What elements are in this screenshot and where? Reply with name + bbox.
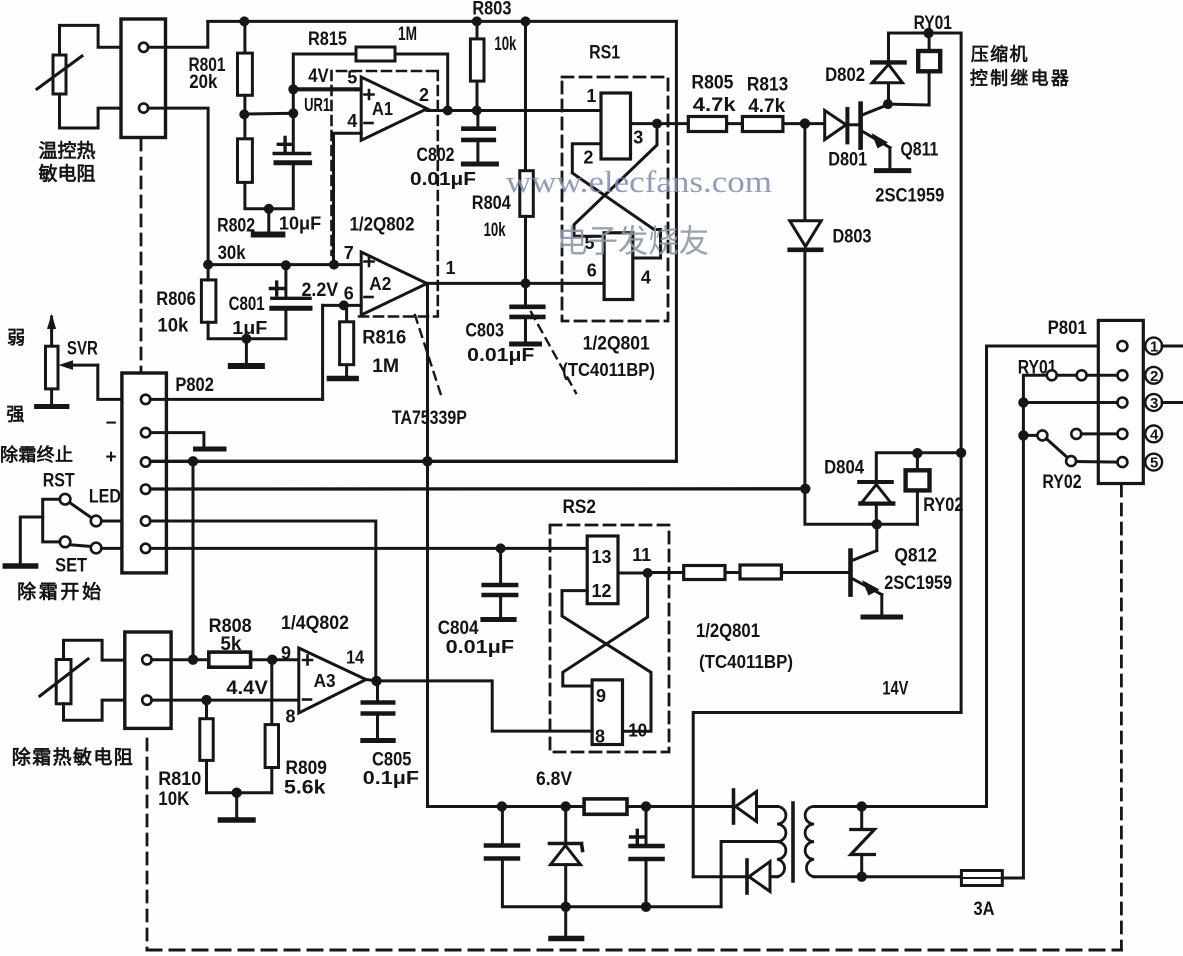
resistor R813 (742, 117, 783, 132)
resistor R810 (200, 700, 213, 793)
svg-text:6: 6 (587, 261, 597, 281)
wire pin6 to P802 pin1 (321, 305, 324, 399)
node dot top rail / R801 (239, 16, 249, 26)
svg-text:P802: P802 (175, 375, 214, 396)
wire RT2 bottom to connector (64, 700, 125, 720)
svg-text:2.2V: 2.2V (302, 280, 339, 301)
svg-text:14V: 14V (882, 679, 908, 700)
wire U1a output to U1b pin5 cross-coupling (574, 124, 657, 237)
ground (supply) (551, 907, 582, 939)
pin circle J1-1 (139, 43, 148, 52)
node dot Q811 collector (883, 99, 893, 109)
node dot zener top (561, 801, 571, 811)
node dot R803/C802 on output row (472, 106, 482, 116)
pin circle P801-5 (1117, 457, 1127, 467)
svg-text:6.8V: 6.8V (536, 769, 572, 790)
svg-text:RS1: RS1 (589, 43, 620, 64)
svg-text:4.7k: 4.7k (693, 95, 736, 116)
wire J1-1 to top rail (148, 22, 208, 47)
svg-text:4V: 4V (308, 66, 329, 87)
wire mains live vertical (pin1 to primary) (987, 346, 1123, 807)
svg-text:20k: 20k (189, 72, 217, 93)
node dot RY01 top (923, 28, 933, 38)
wire RS1 output to R805 (657, 122, 688, 125)
svg-text:RY02: RY02 (1042, 472, 1081, 493)
node dot LED row / D803 line (800, 484, 810, 494)
svg-text:P801: P801 (1048, 318, 1088, 339)
svg-text:8: 8 (595, 727, 605, 747)
pin circle P801-2 (1117, 370, 1127, 380)
wire comparator input row (208, 263, 361, 266)
node dot varistor top (857, 801, 867, 811)
svg-text:9: 9 (596, 686, 606, 706)
svg-text:30k: 30k (218, 243, 246, 264)
circled terminal 5 (1145, 454, 1162, 472)
svg-text:10K: 10K (158, 789, 189, 810)
wire primary top to varistor (814, 805, 987, 808)
node dot R804 top rail (521, 16, 531, 26)
wire U1a output (631, 122, 658, 125)
node dot zener bottom (561, 902, 571, 912)
label R810 10K (158, 769, 201, 810)
svg-text:敏电阻: 敏电阻 (38, 162, 96, 185)
wire U2a output (618, 572, 648, 575)
svg-text:3: 3 (633, 128, 643, 148)
svg-text:R806: R806 (156, 289, 196, 310)
pin circle P802-3 (141, 457, 150, 466)
wire R810/R809 bottoms (207, 791, 272, 794)
svg-text:4.4V: 4.4V (226, 678, 268, 699)
node dot filter cap top (497, 801, 507, 811)
node dot R810 top (201, 695, 211, 705)
wire RST/SET common bracket (43, 499, 60, 542)
resistor R809 (265, 660, 278, 793)
connector J1 (thermistor connector) (121, 19, 166, 138)
node dot A1 output/feedback (443, 106, 453, 116)
svg-text:弱: 弱 (7, 328, 25, 348)
connector J2 (defrost thermistor) (125, 632, 171, 728)
pin circle P802-2 (141, 428, 150, 437)
wire A1 output row (427, 109, 601, 112)
node UR1 (4V reference) (288, 84, 298, 94)
node dot A3 pin9 / R809 (267, 655, 277, 665)
pin circle P801-1 (1117, 341, 1127, 351)
node dot RY02 common upper (1018, 397, 1028, 407)
wire SVR wiper to P802 pin1 (98, 365, 122, 399)
wire J2-2 to A3 pin8 (152, 699, 299, 702)
wire fuse to RY02 common vertical (1023, 375, 1046, 878)
wire common to ground (20, 517, 42, 563)
transformer T1 secondary winding (777, 807, 786, 877)
svg-text:3: 3 (1150, 395, 1158, 412)
diode D802 (872, 33, 904, 104)
ground (switch common) (5, 563, 35, 569)
node dot R802/10uF ground (264, 204, 274, 214)
node dot R806/C801 ground (241, 334, 251, 344)
pin circle P801-4 (1117, 429, 1127, 439)
resistor R816 (329, 305, 356, 378)
svg-text:5k: 5k (220, 634, 241, 655)
NAND gate U2b (pins 9,8,10) (592, 680, 622, 745)
rectifier diode D806 (693, 860, 777, 893)
varistor Z (851, 807, 875, 877)
wire R808 to A3 pin9 (251, 658, 299, 661)
wire A1 pin4 input (334, 133, 362, 264)
wire RT2 top to connector (64, 640, 125, 660)
wire D803 vertical lower (805, 250, 918, 525)
label C804 0.01uF (438, 618, 514, 657)
relay coil RY01 (888, 33, 940, 105)
svg-text:0.1μF: 0.1μF (363, 768, 419, 788)
svg-text:+: + (106, 447, 117, 468)
pin circle P802-5 (141, 516, 150, 525)
svg-text:7: 7 (344, 243, 354, 263)
svg-text:(TC4011BP): (TC4011BP) (562, 360, 655, 380)
label R813 4.7k (747, 75, 788, 118)
svg-text:A2: A2 (369, 274, 391, 294)
node dot U2a output (643, 568, 653, 578)
svg-text:R813: R813 (747, 75, 788, 96)
svg-text:R809: R809 (286, 758, 327, 779)
svg-text:1/2Q801: 1/2Q801 (583, 334, 651, 355)
node dot R808 left (188, 655, 198, 665)
wire D803 vertical upper (803, 124, 806, 221)
label R805 4.7k (691, 73, 736, 117)
node dot A3 output (371, 676, 381, 686)
wire right rail of comparator block (675, 21, 678, 461)
wire primary bottom to fuse (814, 875, 961, 878)
dashed border left upper (140, 139, 143, 373)
svg-text:3A: 3A (974, 899, 995, 920)
svg-text:1: 1 (1150, 339, 1158, 356)
wire R813 to D801 node (783, 122, 825, 125)
dashed box RS2 (550, 525, 669, 752)
svg-text:8: 8 (286, 707, 296, 727)
circled terminal 3 (1145, 394, 1162, 412)
svg-text:4: 4 (641, 267, 651, 287)
svg-text:5.6k: 5.6k (284, 778, 326, 799)
svg-text:0.01μF: 0.01μF (410, 169, 476, 189)
wire pin3 row (1023, 401, 1117, 404)
pin circle J2-2 (142, 695, 151, 704)
svg-text:0.01μF: 0.01μF (446, 637, 514, 657)
svg-text:D802: D802 (825, 65, 865, 86)
pin circle J2-1 (142, 655, 151, 664)
wire ground row (566, 905, 721, 908)
wire terminal 3 stub (1162, 401, 1183, 404)
wire plus row (P802 pin3) (150, 460, 676, 463)
ground (Q812 emitter) (863, 615, 901, 620)
svg-text:R802: R802 (217, 216, 255, 237)
wire junction row to UR1 node (244, 112, 293, 116)
wire 6.8V supply row (502, 805, 584, 808)
svg-text:9: 9 (281, 643, 291, 663)
node dot U1a output (652, 119, 662, 129)
wire 14V return vertical (693, 713, 961, 877)
svg-text:D804: D804 (824, 458, 864, 479)
svg-text:Q812: Q812 (894, 546, 937, 567)
svg-text:TA75339P: TA75339P (392, 408, 467, 429)
capacitor C802 (463, 111, 496, 165)
svg-text:10k: 10k (494, 34, 516, 55)
label C802 0.01uF (410, 145, 476, 189)
wire resistor to diode row (627, 805, 733, 808)
wire row P802 pin5 to A3 output (150, 521, 375, 681)
svg-text:RY01: RY01 (914, 13, 953, 34)
NAND gate U1b (pins 5,6,4) (604, 233, 633, 300)
diode D801 (825, 109, 860, 142)
diode D804 (859, 453, 963, 525)
transistor Q812 2SC1959 (851, 524, 882, 613)
svg-text:D801: D801 (828, 150, 867, 171)
svg-text:电子发烧友: 电子发烧友 (557, 223, 709, 259)
label C801 1uF (229, 294, 268, 338)
svg-text:10k: 10k (484, 220, 506, 241)
svg-text:11: 11 (632, 545, 651, 565)
ground (R810/R809) (220, 793, 253, 820)
resistor R808 (209, 652, 251, 667)
pin circle P802-6 (141, 544, 150, 553)
wire SET contact to P802 pin6 (101, 547, 122, 550)
svg-text:RY02: RY02 (923, 495, 963, 516)
node dot C801 top (281, 260, 291, 270)
wire R805-R813 (727, 122, 743, 125)
pin circle P802-1 (141, 395, 150, 404)
zener diode ZD1 (550, 807, 583, 907)
wire A2 pin6 stub (323, 304, 362, 307)
wire right vertical rail (RY01 to 14V corner) (960, 33, 963, 713)
node dot varistor bottom (857, 872, 867, 882)
label R804 10k (472, 193, 511, 241)
NAND gate U2a (pins 13,12,11) (587, 536, 618, 604)
wire U2a output to U2b pin9 cross-coupling (563, 573, 648, 686)
wire A2 output down to plus row (426, 283, 429, 461)
wire LED contact to P802 pin5 (101, 520, 122, 523)
svg-text:1: 1 (446, 258, 456, 278)
switch RST (60, 494, 92, 518)
svg-text:13: 13 (592, 547, 612, 567)
svg-text:SET: SET (55, 556, 87, 577)
wire Rb1-Rb2 (725, 571, 740, 574)
label R808 5k (209, 616, 252, 655)
wire RY01 top rail (889, 32, 962, 35)
transistor Q811 2SC1959 (861, 104, 890, 167)
svg-text:温控热: 温控热 (39, 139, 96, 162)
wire UR1 vertical to R815 (293, 54, 356, 113)
resistor R802 (238, 114, 269, 208)
svg-text:14: 14 (346, 648, 364, 668)
connector P802 (122, 373, 166, 573)
wire A1 pin5 input (thick) (293, 87, 361, 91)
svg-text:4: 4 (347, 111, 357, 131)
node dot RY02 top (912, 448, 922, 458)
resistor Rb1 (Q812 base) (684, 566, 725, 580)
label C803 0.01uF (465, 321, 534, 366)
node dot C804 top (496, 543, 506, 553)
node dot Q812 collector / D804 (872, 519, 882, 529)
wire U2a output to base resistors (648, 571, 684, 574)
node dot plus row / A2 latch (422, 456, 432, 466)
svg-text:除霜终止: 除霜终止 (0, 444, 73, 465)
dashed border bottom (147, 949, 1121, 952)
node dot A1 pin4 / A2 pin7 (329, 260, 339, 270)
svg-text:RST: RST (43, 471, 75, 492)
resistor R815 (356, 47, 395, 61)
svg-text:1/4Q802: 1/4Q802 (281, 613, 349, 634)
node dot divider ground (232, 788, 242, 798)
node dot electrolytic bottom (641, 902, 651, 912)
svg-text:1: 1 (586, 86, 596, 106)
svg-text:2: 2 (1150, 368, 1158, 385)
contact circle LED row (91, 516, 102, 527)
svg-text:1μF: 1μF (232, 318, 267, 338)
circled terminal 1 (1145, 338, 1162, 356)
svg-text:−: − (106, 413, 117, 434)
wire terminal 1 stub (1162, 345, 1183, 348)
svg-text:1M: 1M (398, 24, 417, 45)
wire row P802 pin6 to RS2 pin13 (150, 547, 588, 550)
svg-text:A1: A1 (372, 99, 393, 119)
svg-text:2SC1959: 2SC1959 (875, 186, 944, 207)
transformer T1 core (791, 803, 795, 881)
op-amp A3 (299, 648, 366, 713)
fuse F1 3A (961, 871, 1023, 886)
svg-text:除霜热敏电阻: 除霜热敏电阻 (12, 746, 133, 769)
rectifier diode D805 (734, 790, 778, 823)
wire thermistor bottom to connector pin 2 (60, 94, 122, 128)
node dot 10uF top (288, 108, 298, 118)
svg-text:10k: 10k (157, 316, 188, 337)
wire secondary center tap (721, 842, 777, 907)
svg-text:D803: D803 (833, 227, 872, 248)
label 温控热敏电阻 (38, 139, 96, 185)
label R815 1M (308, 24, 417, 50)
pin circle P802-4 (141, 485, 150, 494)
op-amp A1 (361, 77, 427, 140)
svg-text:R816: R816 (362, 328, 406, 349)
wire J1-2 down to node row (148, 108, 208, 265)
label C805 0.1uF (363, 750, 419, 789)
svg-text:4.7k: 4.7k (748, 96, 785, 117)
svg-text:2: 2 (419, 85, 429, 105)
dashed box RS1 (562, 77, 668, 321)
resistor R806 (201, 265, 286, 339)
pin circle P801-3 (1117, 398, 1127, 408)
capacitor C804 (483, 548, 516, 619)
svg-text:1/2Q801: 1/2Q801 (696, 621, 760, 642)
svg-text:RS2: RS2 (563, 497, 597, 518)
relay coil RY02 (906, 453, 930, 524)
label R809 5.6k (284, 758, 327, 799)
relay contact RY01 (1047, 370, 1118, 380)
ground (R802/10uF) (254, 209, 283, 235)
switch SET (60, 537, 92, 548)
capacitor C801 1uF electrolytic (270, 265, 310, 338)
node dot R801/R802 junction (239, 109, 249, 119)
svg-text:A3: A3 (314, 671, 336, 691)
relay contact RY02 (1023, 429, 1117, 466)
thermistor RT2 (defrost sensing) (40, 659, 88, 704)
connector P801 (1098, 320, 1143, 483)
svg-text:C803: C803 (465, 321, 504, 342)
svg-text:4: 4 (1150, 426, 1159, 443)
label R802 30k (217, 216, 255, 265)
thermistor RT1 (temperature sensing) (37, 55, 82, 94)
capacitor C803 (512, 283, 544, 344)
svg-text:Q811: Q811 (900, 140, 938, 161)
potentiometer SVR (37, 314, 98, 407)
wire P802 pin2 to ground (150, 433, 204, 446)
svg-text:R810: R810 (158, 769, 201, 790)
diode D803 (790, 221, 822, 250)
svg-text:C804: C804 (438, 618, 479, 639)
node dot R803 top rail (472, 16, 482, 26)
wire A2 output row (427, 282, 604, 285)
dashed border right (1120, 485, 1123, 950)
wire U2a pin12 cross-coupling to U2b pin10 (562, 591, 651, 732)
pin circle J1-2 (139, 104, 148, 113)
capacitor C805 (363, 681, 393, 741)
node dot plus row / defrost feed (188, 456, 198, 466)
svg-text:10μF: 10μF (279, 214, 321, 234)
wire latch vertical to supply row (428, 461, 502, 806)
wire Rb2 to Q812 base (781, 571, 849, 574)
NAND gate U1a (pins 1,2,3) (601, 93, 631, 159)
circled terminal 4 (1145, 426, 1162, 444)
resistor Rb2 (Q812 base) (740, 565, 781, 579)
svg-text:12: 12 (592, 581, 612, 601)
resistor R804 (520, 21, 534, 283)
wire U1a pin2 cross-coupling (572, 144, 660, 258)
svg-text:强: 强 (6, 405, 24, 425)
node dot electrolytic top (641, 801, 651, 811)
svg-text:www.elecfans.com: www.elecfans.com (506, 164, 772, 199)
svg-text:R815: R815 (308, 29, 347, 50)
label R803 10k (472, 0, 516, 55)
svg-text:10: 10 (628, 721, 647, 741)
ground (P802 pin2) (196, 447, 225, 452)
node dot pin6/R816 (339, 300, 349, 310)
resistor Rs (supply series) (584, 799, 627, 814)
leader dashed TA75339P left (415, 315, 442, 398)
wire J2-1 to R808 (152, 658, 209, 661)
svg-text:C802: C802 (417, 145, 455, 166)
ground (R806/C801) (231, 339, 262, 366)
dashed border left lower (146, 739, 149, 950)
svg-text:5: 5 (1150, 455, 1158, 472)
dashed box comparator 1/2Q802 (332, 71, 438, 317)
ground (Q811 emitter) (876, 168, 908, 173)
svg-text:2SC1959: 2SC1959 (884, 573, 952, 594)
label R806 10k (156, 289, 196, 337)
svg-text:(TC4011BP): (TC4011BP) (699, 652, 793, 672)
svg-text:SVR: SVR (67, 339, 98, 360)
label R816 1M (362, 328, 406, 378)
resistor R803 (470, 21, 484, 110)
wire R815 right lead to A1 output (395, 54, 448, 111)
svg-text:1/2Q802: 1/2Q802 (350, 215, 415, 236)
resistor R801 (238, 21, 253, 114)
node dot right rail / D804 row (956, 448, 966, 458)
wire A3 output to U2b pin8 (366, 680, 592, 732)
svg-text:LED: LED (89, 487, 121, 508)
capacitor C807 electrolytic (631, 807, 663, 907)
node dot pin7 row left (203, 260, 213, 270)
wire P802 pin1 row to A2 pin6 (150, 398, 322, 401)
svg-text:R805: R805 (691, 73, 733, 94)
node dot D803 top (800, 118, 810, 128)
leader dashed TA75339P right (531, 312, 576, 393)
